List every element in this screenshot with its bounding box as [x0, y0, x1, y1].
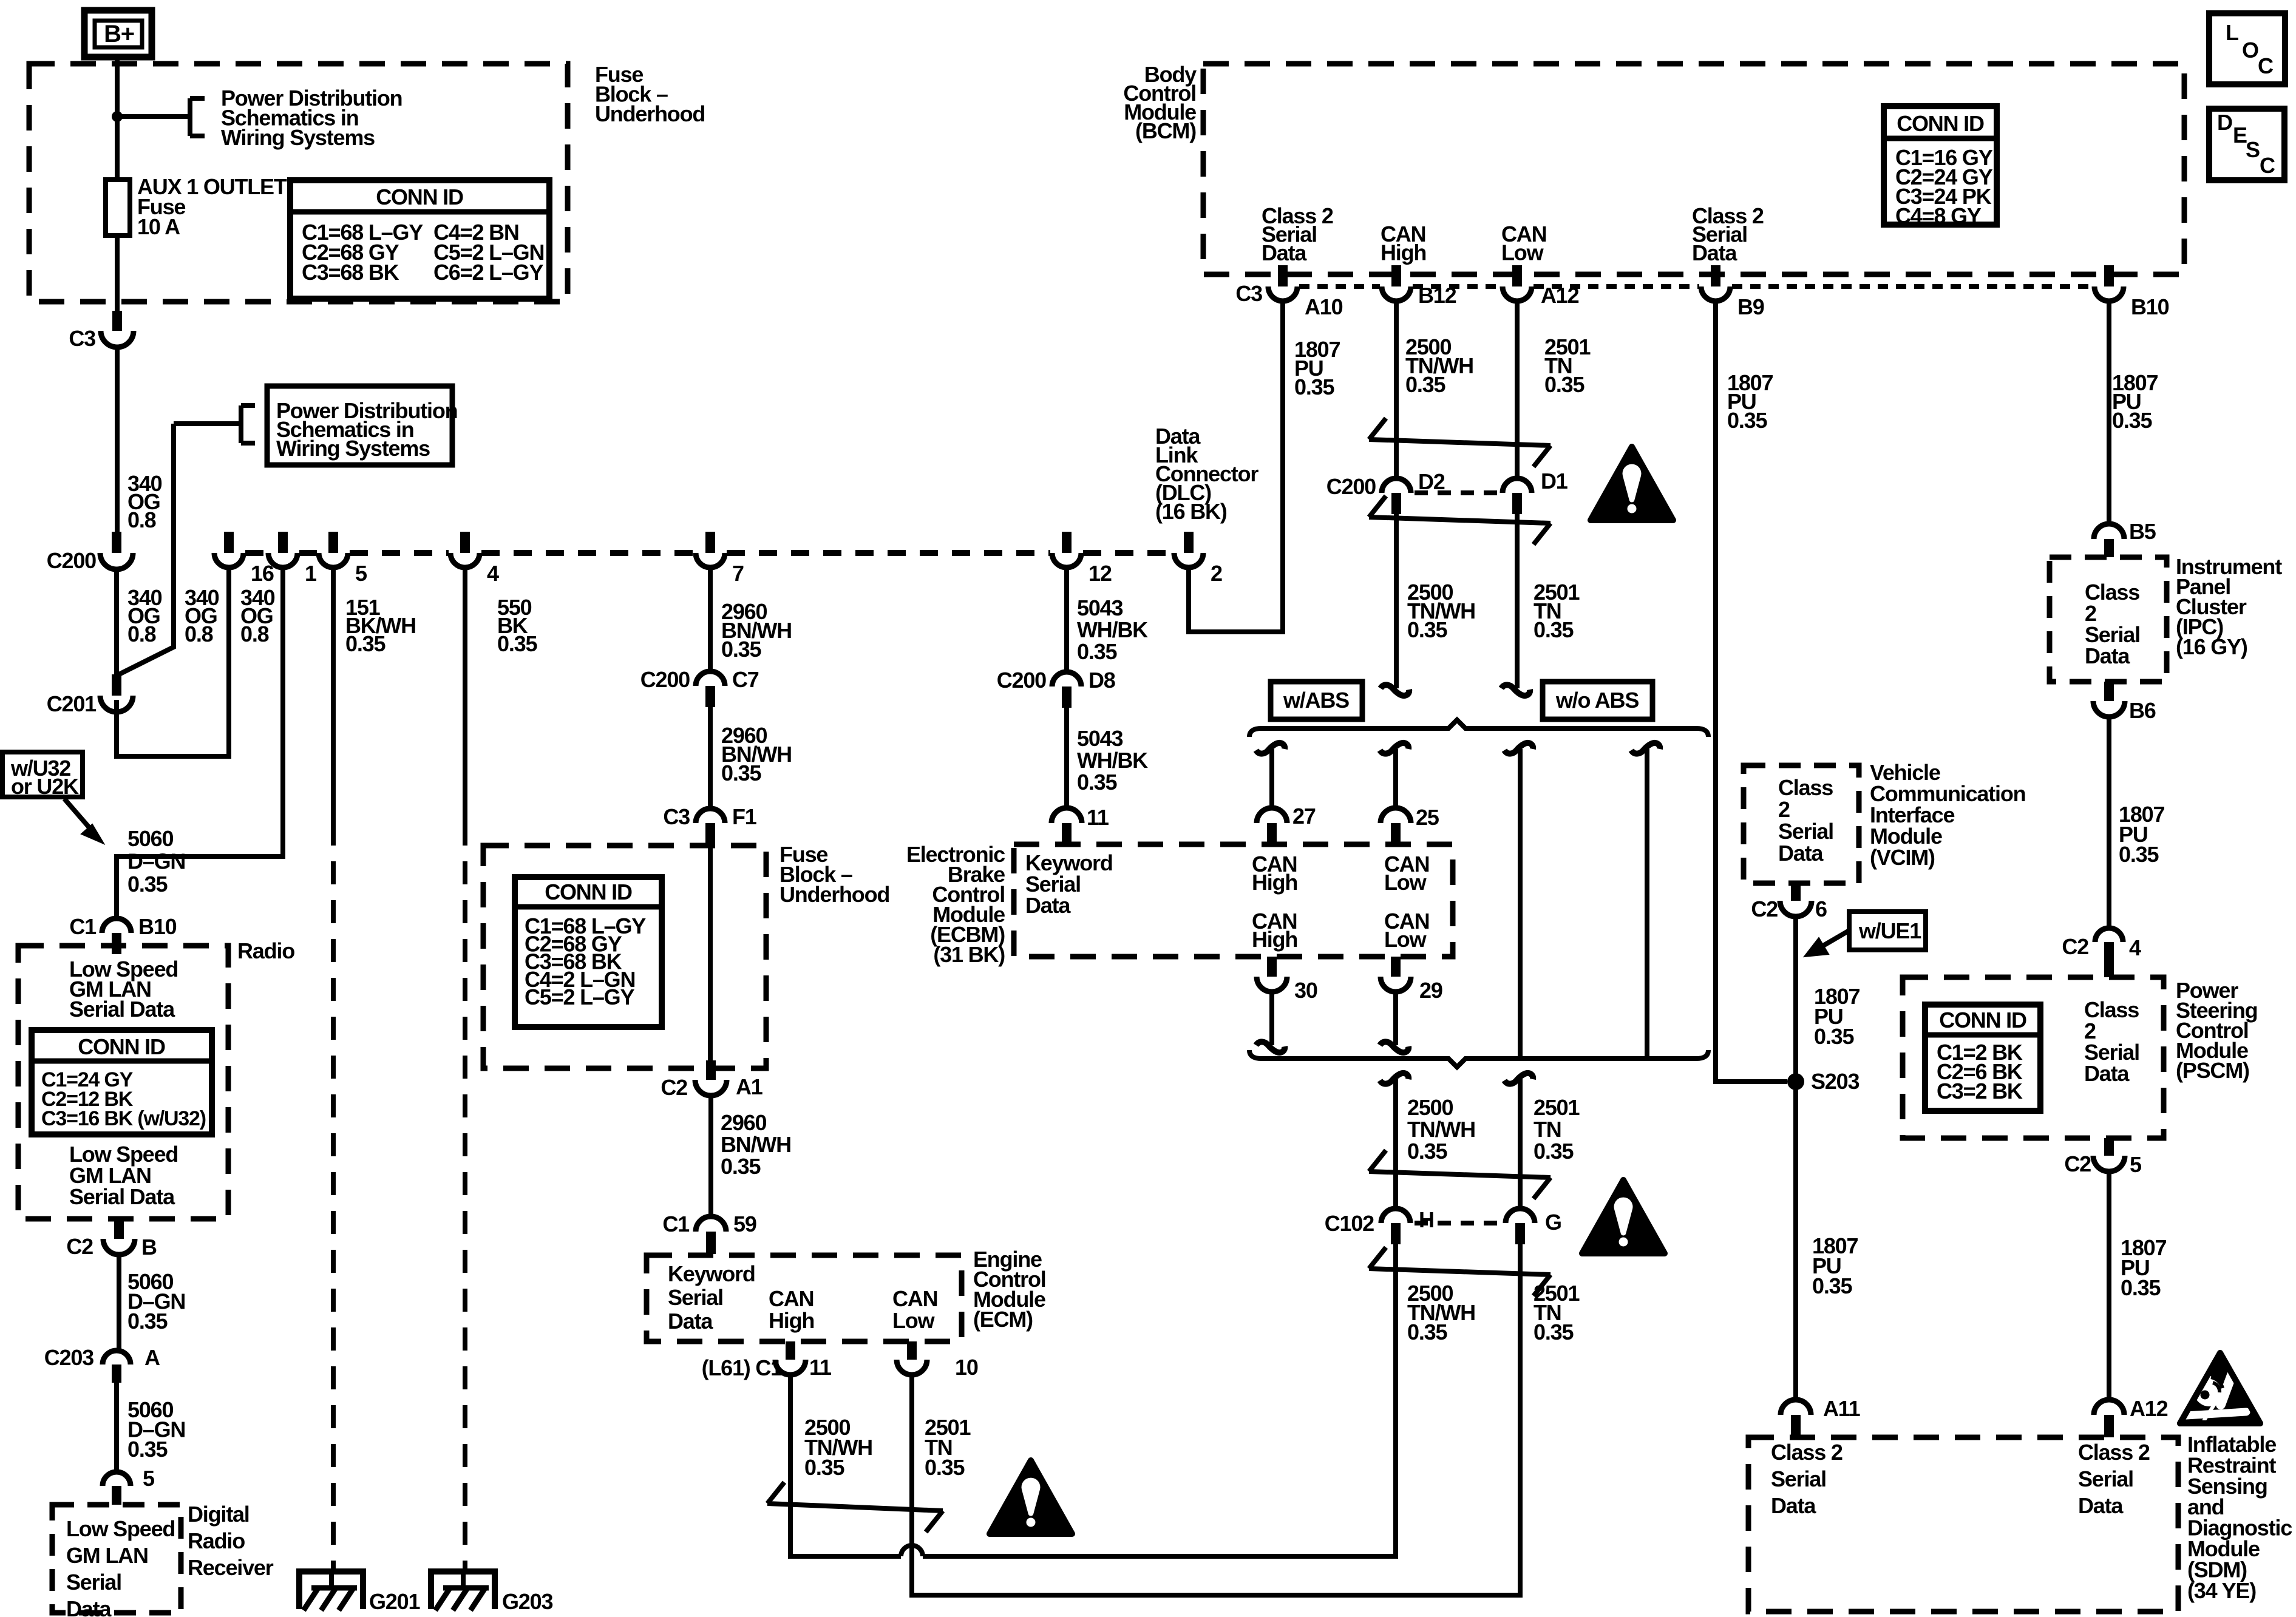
svg-text:E: E	[2233, 123, 2247, 147]
dashed link D2 D1	[1415, 490, 1500, 495]
svg-text:0.35: 0.35	[1077, 639, 1117, 664]
dashed link H G	[1415, 1221, 1503, 1225]
svg-text:WH/BK: WH/BK	[1077, 748, 1148, 773]
hook end D1 wire	[1501, 685, 1530, 696]
junction S203	[1787, 1073, 1804, 1090]
wire ECBM 30 down	[1269, 994, 1274, 1045]
fuse block underhood dashed box 2	[483, 846, 766, 1068]
svg-text:or U2K: or U2K	[11, 774, 79, 799]
svg-text:Data: Data	[66, 1596, 112, 1617]
hook end 29	[1380, 1042, 1408, 1053]
wire H down to ECM	[1393, 1244, 1398, 1556]
junction on B+ feed	[112, 111, 123, 122]
svg-text:High: High	[1252, 870, 1297, 895]
svg-text:C3: C3	[69, 326, 95, 351]
DESC box	[2209, 109, 2284, 180]
wire pin 5 to G201 solid part	[331, 569, 336, 822]
svg-text:5: 5	[143, 1466, 155, 1491]
svg-text:Wiring Systems: Wiring Systems	[276, 436, 430, 461]
svg-text:C6=2 L–GY: C6=2 L–GY	[433, 260, 543, 285]
svg-text:A12: A12	[2130, 1396, 2168, 1421]
svg-text:B10: B10	[2131, 294, 2169, 319]
wire branch to power distribution reference	[117, 114, 190, 119]
svg-text:C4=8 GY: C4=8 GY	[1895, 203, 1982, 228]
warning triangle DLC	[1591, 447, 1673, 520]
connector 5 digital radio receiver	[103, 1472, 131, 1486]
svg-text:S203: S203	[1811, 1069, 1859, 1094]
svg-text:0.8: 0.8	[185, 622, 213, 646]
svg-text:High: High	[769, 1308, 814, 1333]
wire G down to ECM	[1518, 1244, 1523, 1595]
svg-text:O: O	[2242, 38, 2258, 63]
svg-text:Class 2: Class 2	[1771, 1440, 1843, 1465]
svg-text:Underhood: Underhood	[779, 882, 889, 907]
instrument panel cluster dashed box	[2050, 557, 2167, 682]
svg-text:G: G	[1545, 1210, 1561, 1235]
svg-text:CAN: CAN	[892, 1286, 937, 1311]
svg-text:11: 11	[1087, 805, 1109, 830]
svg-text:High: High	[1381, 240, 1426, 265]
svg-text:C201: C201	[47, 691, 97, 716]
svg-text:0.35: 0.35	[2121, 1275, 2161, 1300]
ground G203	[428, 1568, 498, 1575]
svg-text:C3: C3	[663, 804, 690, 829]
svg-text:Serial: Serial	[1771, 1466, 1826, 1491]
svg-text:0.35: 0.35	[1814, 1024, 1854, 1049]
svg-text:B10: B10	[138, 914, 177, 939]
svg-text:0.35: 0.35	[1727, 408, 1767, 433]
svg-text:(ECM): (ECM)	[973, 1307, 1033, 1332]
connector C200 D1	[1503, 478, 1532, 493]
engine control module dashed box	[647, 1255, 962, 1341]
svg-text:(16 GY): (16 GY)	[2176, 634, 2247, 659]
svg-text:C1: C1	[662, 1212, 690, 1236]
svg-text:27: 27	[1292, 804, 1316, 829]
svg-text:CONN ID: CONN ID	[1939, 1008, 2026, 1032]
svg-text:Data: Data	[1025, 893, 1071, 918]
svg-text:0.35: 0.35	[804, 1455, 844, 1480]
wire C2 B to C203	[117, 1256, 121, 1352]
connector ECBM 25	[1381, 808, 1411, 823]
svg-text:(31 BK): (31 BK)	[933, 942, 1005, 967]
svg-text:0.35: 0.35	[345, 631, 385, 656]
C200 pass-through connector dashed line	[245, 550, 267, 556]
svg-text:(BCM): (BCM)	[1135, 118, 1196, 143]
svg-text:C2: C2	[66, 1234, 93, 1259]
svg-text:2: 2	[1778, 797, 1790, 822]
svg-text:0.35: 0.35	[2112, 408, 2152, 433]
option box w/U32 or U2K	[2, 752, 83, 797]
connector ECM C1 11	[786, 1341, 795, 1360]
wire BCM A10 to DLC pin 2	[1189, 303, 1283, 632]
svg-text:Keyword: Keyword	[668, 1261, 755, 1286]
body control module dashed box	[1203, 64, 2184, 274]
svg-text:C200: C200	[997, 668, 1046, 693]
wire fuse to C3	[115, 236, 120, 311]
wire BCM B12 CAN High	[1394, 303, 1399, 478]
wire through fuse block	[708, 844, 713, 1070]
svg-text:0.35: 0.35	[1533, 1320, 1574, 1344]
svg-text:4: 4	[487, 561, 499, 586]
svg-text:BN/WH: BN/WH	[721, 1132, 791, 1157]
svg-text:w/UE1: w/UE1	[1858, 918, 1921, 943]
wire C201 down and over to pin 16	[117, 569, 229, 756]
svg-text:CONN ID: CONN ID	[78, 1034, 165, 1059]
connector pin 5	[328, 532, 338, 553]
svg-text:0.35: 0.35	[1407, 617, 1447, 642]
wire ECM pin 11 CAN High	[790, 1377, 901, 1556]
svg-text:Data: Data	[2078, 1493, 2124, 1518]
svg-text:Data: Data	[1262, 240, 1307, 265]
svg-text:Class: Class	[1778, 775, 1833, 800]
connector ECBM 29	[1391, 957, 1401, 977]
svg-text:0.35: 0.35	[497, 631, 537, 656]
wire pin 7 to C7	[708, 569, 713, 673]
warning triangle ECM	[990, 1460, 1072, 1534]
svg-text:2500: 2500	[1407, 1095, 1453, 1120]
warning triangle C102	[1582, 1180, 1665, 1253]
wire ECM pin 10 CAN Low	[912, 1377, 1520, 1595]
svg-text:0.35: 0.35	[1812, 1273, 1852, 1298]
svg-text:GM LAN: GM LAN	[66, 1543, 148, 1568]
svg-text:0.35: 0.35	[1533, 1139, 1574, 1164]
connector ECBM 30	[1267, 957, 1277, 977]
svg-text:Radio: Radio	[237, 938, 294, 963]
ground G201	[296, 1568, 366, 1575]
svg-text:Serial: Serial	[668, 1285, 723, 1310]
connector ECBM 11	[1051, 808, 1082, 823]
svg-text:0.35: 0.35	[1405, 372, 1445, 397]
svg-text:B9: B9	[1737, 294, 1764, 319]
svg-text:0.35: 0.35	[1533, 617, 1574, 642]
svg-text:2501: 2501	[1533, 1095, 1580, 1120]
svg-text:C203: C203	[44, 1345, 93, 1370]
connector BCM B9	[1711, 265, 1720, 286]
connector A12 SDM	[2094, 1400, 2124, 1415]
svg-text:10: 10	[955, 1355, 978, 1380]
wire A1 to 59	[708, 1097, 713, 1218]
connector C201	[112, 674, 121, 696]
svg-text:25: 25	[1416, 805, 1439, 830]
svg-text:A12: A12	[1541, 283, 1579, 308]
connector C2 5 PSCM	[2104, 1138, 2114, 1156]
twisted pair crossover 1	[1369, 418, 1386, 439]
connector A11 SDM	[1781, 1400, 1811, 1415]
inflatable restraint sensing and diagnostic module dashed box	[1748, 1437, 2178, 1612]
svg-text:F1: F1	[732, 804, 757, 829]
svg-text:A10: A10	[1305, 294, 1343, 319]
option box w/o ABS	[1543, 682, 1652, 719]
connector C200 C7	[696, 671, 725, 686]
connector C3 fuse block	[112, 311, 122, 331]
svg-text:D: D	[2217, 110, 2232, 135]
svg-text:Low Speed: Low Speed	[66, 1516, 175, 1541]
svg-text:Serial Data: Serial Data	[69, 1184, 175, 1209]
wire C2 5 to A12	[2107, 1174, 2111, 1401]
svg-text:0.8: 0.8	[127, 622, 156, 646]
svg-text:B6: B6	[2129, 698, 2156, 723]
connector B6 IPC	[2104, 682, 2114, 701]
CONN ID table radio	[32, 1030, 212, 1134]
connector ECM 10	[907, 1341, 917, 1360]
svg-text:Low: Low	[1384, 927, 1427, 952]
svg-text:D8: D8	[1089, 668, 1115, 693]
svg-text:0.35: 0.35	[925, 1455, 965, 1480]
svg-text:11: 11	[809, 1355, 832, 1380]
twisted pair crossover 2	[1369, 496, 1386, 517]
svg-text:C2: C2	[1751, 897, 1778, 921]
connector BCM A12	[1512, 265, 1522, 286]
connector C203 A	[103, 1351, 131, 1364]
svg-text:D1: D1	[1541, 469, 1568, 493]
connector ECBM 27	[1257, 808, 1287, 823]
wire C7 to F1	[708, 707, 713, 810]
svg-text:S: S	[2246, 137, 2260, 162]
connector pin 16	[224, 532, 234, 553]
svg-text:C: C	[2258, 53, 2274, 78]
svg-text:6: 6	[1815, 897, 1827, 921]
svg-text:Digital: Digital	[188, 1502, 250, 1527]
svg-text:29: 29	[1419, 978, 1442, 1003]
wire pin 5 dashed to G201	[331, 822, 336, 1571]
wire ECBM 29 down	[1393, 994, 1398, 1045]
svg-text:5043: 5043	[1077, 726, 1123, 751]
brace stub hook 2	[1380, 743, 1408, 754]
svg-text:C2: C2	[661, 1075, 687, 1100]
wire pin 4 to G203 solid part	[463, 569, 467, 822]
brace stub hook 1	[1256, 743, 1285, 754]
CONN ID table fuse block underhood	[290, 180, 549, 299]
wire pin 12 to ECBM 11	[1064, 569, 1069, 673]
svg-text:0.35: 0.35	[1544, 372, 1584, 397]
connector BCM C3 A10	[1278, 265, 1288, 286]
svg-text:C3=2 BK: C3=2 BK	[1937, 1079, 2023, 1103]
wire B+ to fuse	[115, 57, 120, 180]
connector C200 main	[112, 532, 121, 553]
svg-text:Wiring Systems: Wiring Systems	[221, 125, 375, 150]
svg-text:Receiver: Receiver	[188, 1555, 274, 1580]
svg-text:Data: Data	[2084, 1061, 2130, 1086]
svg-text:Data: Data	[1778, 841, 1824, 866]
connector pin 4	[460, 532, 470, 553]
wire 340 OG C3 to C200	[115, 348, 120, 533]
svg-text:10 A: 10 A	[137, 214, 180, 239]
fuse AUX 1 OUTLET 10 A	[115, 180, 120, 236]
reference bracket power distribution	[188, 98, 192, 136]
svg-text:0.8: 0.8	[127, 507, 156, 532]
svg-text:C3: C3	[1235, 281, 1262, 306]
svg-text:5: 5	[2130, 1152, 2142, 1177]
svg-text:Class 2: Class 2	[2078, 1440, 2150, 1465]
svg-text:B: B	[141, 1235, 157, 1259]
svg-text:59: 59	[733, 1212, 756, 1236]
svg-text:30: 30	[1294, 978, 1317, 1003]
svg-text:Data: Data	[668, 1309, 713, 1334]
svg-text:0.35: 0.35	[721, 637, 761, 662]
connector DLC pin 2	[1184, 532, 1194, 553]
hook end 30	[1256, 1042, 1285, 1053]
connector BCM B12	[1391, 265, 1401, 286]
brace stub hook 4	[1631, 743, 1660, 754]
wire pin 1 down to radio	[117, 569, 283, 918]
svg-text:Low: Low	[1384, 870, 1427, 895]
svg-text:0.35: 0.35	[127, 872, 168, 897]
connector pin 12	[1062, 532, 1072, 553]
svg-text:D2: D2	[1418, 469, 1445, 494]
svg-text:G203: G203	[502, 1589, 552, 1614]
connector pin 1	[278, 532, 288, 553]
upper option brace	[1249, 720, 1708, 737]
svg-text:Data: Data	[1692, 240, 1737, 265]
svg-text:0.8: 0.8	[240, 622, 269, 646]
arrow w/UE1	[1820, 931, 1849, 947]
connector pin 7	[705, 532, 715, 553]
svg-text:CONN ID: CONN ID	[545, 880, 632, 904]
brace stub hook 3	[1504, 743, 1533, 754]
vehicle communication interface module dashed box	[1744, 765, 1859, 883]
power steering control module dashed box	[1903, 977, 2164, 1138]
connector C200 D2	[1382, 478, 1411, 493]
svg-text:0.35: 0.35	[1407, 1320, 1447, 1344]
svg-text:CONN ID: CONN ID	[1897, 111, 1984, 136]
svg-text:G201: G201	[369, 1589, 420, 1614]
svg-text:12: 12	[1089, 561, 1112, 586]
wire to power distribution box 2	[174, 421, 241, 426]
digital radio receiver dashed box	[52, 1505, 181, 1613]
svg-text:0.35: 0.35	[1077, 770, 1117, 795]
svg-text:Low: Low	[1501, 240, 1544, 265]
BCM connector row dashed line	[1299, 284, 1380, 289]
connector C2 A1	[706, 1060, 716, 1080]
svg-text:C7: C7	[732, 667, 759, 692]
svg-text:(PSCM): (PSCM)	[2176, 1058, 2249, 1083]
CONN ID table PSCM	[1925, 1005, 2040, 1111]
svg-text:C200: C200	[1326, 474, 1376, 499]
svg-text:Low: Low	[892, 1308, 936, 1333]
arrow w/U32	[64, 799, 96, 835]
svg-text:(L61) C1: (L61) C1	[702, 1355, 783, 1380]
svg-text:Data: Data	[2085, 643, 2130, 668]
svg-text:Serial: Serial	[1778, 819, 1833, 844]
svg-text:(VCIM): (VCIM)	[1870, 845, 1935, 870]
svg-text:Radio: Radio	[188, 1528, 245, 1553]
svg-text:High: High	[1252, 927, 1297, 952]
connector C2 4 PSCM	[2095, 928, 2123, 942]
svg-text:TN: TN	[1533, 1117, 1561, 1142]
svg-text:B5: B5	[2129, 519, 2156, 544]
wire D8 to ECBM	[1064, 708, 1069, 810]
svg-text:C5=2 L–GY: C5=2 L–GY	[525, 985, 634, 1009]
connector C1 59	[696, 1216, 726, 1232]
svg-text:(16 BK): (16 BK)	[1155, 499, 1227, 524]
LOC box	[2209, 13, 2285, 84]
CONN ID table fuse block 2	[515, 877, 662, 1027]
svg-text:Serial Data: Serial Data	[69, 997, 175, 1022]
svg-text:L: L	[2226, 20, 2238, 45]
svg-text:C2: C2	[2062, 934, 2088, 959]
option box w/UE1	[1849, 912, 1926, 950]
svg-text:5: 5	[355, 561, 367, 586]
svg-text:A1: A1	[736, 1074, 763, 1099]
connector B5 IPC	[2094, 524, 2124, 539]
svg-text:H: H	[1419, 1207, 1434, 1232]
svg-text:C3=16 BK (w/U32): C3=16 BK (w/U32)	[41, 1107, 206, 1130]
wire D1 down without ABS	[1515, 514, 1520, 688]
svg-text:w/ABS: w/ABS	[1283, 688, 1349, 713]
svg-text:WH/BK: WH/BK	[1077, 617, 1148, 642]
svg-text:A11: A11	[1823, 1396, 1861, 1421]
reference bracket 2	[239, 405, 243, 443]
svg-text:0.35: 0.35	[721, 761, 761, 785]
connector C102 G	[1506, 1209, 1535, 1223]
connector C200 D8	[1052, 672, 1081, 686]
twisted pair crossover ECM	[767, 1482, 784, 1503]
twisted pair crossover 4	[1369, 1247, 1386, 1269]
svg-text:TN/WH: TN/WH	[1407, 1117, 1475, 1142]
electronic brake control module dashed box	[1014, 844, 1453, 957]
svg-text:C: C	[2260, 153, 2275, 178]
svg-text:4: 4	[2129, 935, 2141, 960]
lower brace stub hook H	[1380, 1073, 1408, 1084]
svg-text:0.35: 0.35	[1294, 375, 1334, 399]
wire BCM A12 CAN Low	[1515, 303, 1520, 478]
svg-text:B12: B12	[1418, 283, 1456, 308]
wire C203 to digital radio receiver	[114, 1383, 119, 1474]
svg-text:D–GN: D–GN	[127, 849, 185, 874]
CONN ID table BCM	[1884, 106, 1997, 225]
svg-text:2960: 2960	[721, 1110, 766, 1135]
connector C2 6 VCIM	[1791, 883, 1801, 901]
svg-text:C3=68 BK: C3=68 BK	[302, 260, 399, 285]
svg-text:CONN ID: CONN ID	[376, 185, 463, 209]
svg-text:0.35: 0.35	[721, 1154, 761, 1179]
connector BCM B10	[2104, 265, 2114, 286]
wire C200 to C201	[114, 571, 119, 676]
svg-text:CAN: CAN	[769, 1286, 813, 1311]
wire BCM B9 down to S203	[1716, 303, 1787, 1082]
option box w/ABS	[1271, 682, 1362, 719]
connector C2 B radio	[114, 1219, 124, 1239]
svg-text:C2: C2	[2064, 1151, 2091, 1176]
svg-text:0.35: 0.35	[127, 1437, 168, 1462]
svg-text:A: A	[144, 1345, 160, 1370]
svg-text:C1: C1	[69, 914, 97, 939]
svg-text:2: 2	[1211, 561, 1222, 586]
wire D2 down with ABS	[1394, 514, 1399, 688]
hook end D2 wire	[1381, 685, 1409, 696]
svg-text:Data: Data	[1771, 1493, 1816, 1518]
svg-text:0.35: 0.35	[1407, 1139, 1447, 1164]
svg-text:w/o ABS: w/o ABS	[1555, 688, 1639, 713]
power symbol B+	[84, 10, 152, 57]
svg-text:(34 YE): (34 YE)	[2187, 1578, 2256, 1603]
svg-text:7: 7	[732, 561, 744, 586]
svg-text:C102: C102	[1325, 1211, 1374, 1236]
svg-text:C200: C200	[47, 548, 96, 573]
svg-text:1: 1	[305, 561, 317, 586]
lower option brace	[1249, 1050, 1708, 1067]
wire pin 4 dashed to G203	[463, 822, 467, 1571]
power distribution reference box 2	[267, 386, 452, 465]
svg-text:C200: C200	[640, 667, 690, 692]
wire C2 6 to S203 to A11	[1793, 919, 1798, 1401]
svg-text:B+: B+	[104, 21, 134, 47]
svg-text:5043: 5043	[1077, 595, 1123, 620]
svg-text:Underhood: Underhood	[595, 101, 705, 126]
svg-text:5060: 5060	[127, 826, 173, 851]
connector C102 H	[1381, 1209, 1410, 1223]
wire B6 to C2 4	[2107, 719, 2111, 926]
